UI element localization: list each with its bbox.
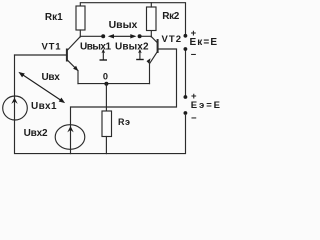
wire RК1 bottom stub — [79, 30, 81, 37]
arrow UВх differential input — [18, 72, 65, 103]
svg-text:−: − — [191, 50, 197, 61]
svg-text:Uвых1: Uвых1 — [80, 42, 111, 53]
wire VT2 emitter down — [149, 64, 151, 84]
svg-text:Rк2: Rк2 — [162, 11, 179, 22]
symbol voltage arrow UВых1 — [100, 49, 108, 60]
transistor Q VT1 emitter — [67, 60, 78, 71]
node terminal EК minus — [184, 47, 188, 51]
transistor Q VT1 collector — [67, 37, 80, 51]
node terminal EЭ minus — [184, 111, 188, 115]
svg-text:VT1: VT1 — [42, 42, 62, 53]
wire RЭ bottom — [105, 137, 107, 154]
wire bottom rail — [15, 116, 186, 154]
svg-text:Uвх: Uвх — [42, 72, 61, 83]
transistor Q VT2 base bar — [157, 40, 159, 52]
svg-text:Rк1: Rк1 — [45, 12, 63, 23]
wire emitter rail — [78, 83, 150, 85]
node collector VT2 tap dot — [138, 34, 142, 38]
source UВх2 — [55, 125, 85, 154]
wire RК2 top stub — [150, 3, 152, 7]
wire top supply rail — [80, 3, 185, 34]
wire VT1 emitter down — [77, 71, 79, 84]
wire UВх2 to VT2 base — [71, 49, 177, 125]
svg-text:Uвх1: Uвх1 — [31, 101, 57, 112]
symbol voltage arrow UВых2 — [136, 49, 144, 60]
resistor RК2 — [147, 7, 157, 31]
node terminal EЭ plus — [184, 95, 188, 99]
svg-text:+: + — [191, 91, 197, 102]
wire collector tap VT1 — [80, 35, 101, 37]
wire VT1 base to source UВх1 — [14, 55, 16, 97]
svg-text:Rэ: Rэ — [118, 117, 130, 127]
node terminal EК plus — [184, 34, 188, 38]
wire collector tap VT2 — [141, 35, 151, 37]
svg-text:+: + — [191, 28, 197, 39]
svg-text:−: − — [191, 113, 197, 124]
wire RЭ top — [105, 84, 107, 111]
resistor RК1 — [76, 6, 85, 30]
arrow UВых differential output — [108, 34, 137, 38]
svg-text:Uвх2: Uвх2 — [24, 128, 48, 139]
source UВх1 — [3, 96, 28, 120]
transistor Q VT2 emitter — [147, 51, 158, 64]
svg-text:Uвых: Uвых — [109, 19, 138, 31]
node emitter junction dot — [104, 82, 108, 86]
node collector VT1 tap dot — [101, 34, 105, 38]
svg-text:VT2: VT2 — [162, 34, 182, 45]
resistor RЭ — [102, 111, 112, 137]
wire EК minus to EЭ plus — [185, 51, 187, 96]
wire VT1 base — [15, 54, 67, 56]
wire VT2 base — [158, 48, 177, 50]
svg-text:0: 0 — [103, 72, 108, 82]
svg-text:Eк=E: Eк=E — [190, 37, 218, 48]
transistor Q VT1 base bar — [66, 50, 68, 61]
wire RК2 bottom stub — [150, 31, 152, 37]
transistor Q VT2 collector — [151, 37, 157, 43]
svg-text:Uвых2: Uвых2 — [115, 42, 149, 53]
